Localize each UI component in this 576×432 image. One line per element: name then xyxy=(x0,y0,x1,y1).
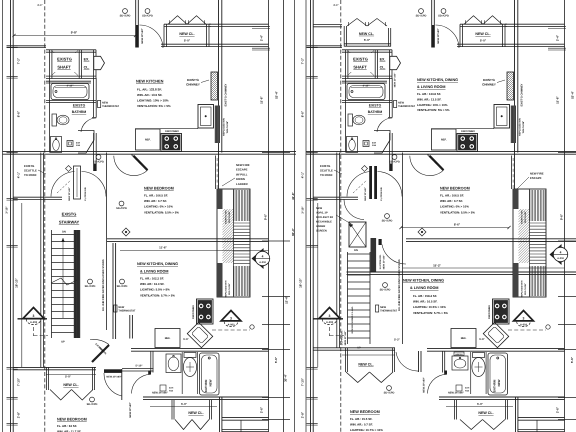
dashed swing xyxy=(57,180,71,193)
svg-text:FAN: FAN xyxy=(169,389,174,392)
bedroom door swing arc xyxy=(410,156,444,176)
svg-text:NEW CL.: NEW CL. xyxy=(478,411,493,415)
svg-text:11'-6": 11'-6" xyxy=(159,246,167,250)
svg-text:2'-6": 2'-6" xyxy=(556,406,560,413)
svg-text:VENTILATION: 5.7% > 5%: VENTILATION: 5.7% > 5% xyxy=(413,311,448,315)
double door arcs xyxy=(347,172,371,197)
svg-text:SD-/CPD: SD-/CPD xyxy=(384,392,395,395)
svg-text:EXH: EXH xyxy=(465,387,470,390)
svg-text:EXH: EXH xyxy=(169,387,174,390)
bathtub xyxy=(347,84,385,100)
svg-text:4: 4 xyxy=(262,254,264,258)
dim 15'-2 xyxy=(403,267,565,269)
bedroom west wall stub xyxy=(129,315,131,339)
svg-text:3'-1": 3'-1" xyxy=(37,4,43,7)
rear hall lines xyxy=(508,329,546,331)
bathtub xyxy=(51,84,89,100)
svg-text:7'-2": 7'-2" xyxy=(17,57,21,64)
svg-text:FL. AR.: 162.2 SF.: FL. AR.: 162.2 SF. xyxy=(140,277,164,281)
svg-text:SD-/CPD: SD-/CPD xyxy=(87,403,98,406)
svg-text:2'-8": 2'-8" xyxy=(301,411,305,418)
bedroom door swing arc xyxy=(114,156,148,176)
svg-text:EXH: EXH xyxy=(372,142,377,145)
bedroom door leaf diagonal xyxy=(134,156,148,170)
bathroom door arc xyxy=(377,118,392,132)
svg-text:DOWN: DOWN xyxy=(236,177,245,181)
svg-text:4'-10": 4'-10" xyxy=(363,85,371,88)
svg-text:SD-/CPD: SD-/CPD xyxy=(117,285,128,288)
svg-text:VENTILATION: 5% > 5%: VENTILATION: 5% > 5% xyxy=(417,108,450,112)
wall hall lower xyxy=(13,196,62,198)
dim 11'-6 xyxy=(120,250,269,252)
rear right walls xyxy=(219,397,221,432)
svg-text:NEW 30"x80": NEW 30"x80" xyxy=(394,73,397,88)
dim line 18-10 xyxy=(317,203,319,367)
svg-text:REPLACED W/N: REPLACED W/N xyxy=(225,280,228,297)
dim 8'-6 bedroom B xyxy=(401,227,509,229)
bedroom door jamb xyxy=(93,153,95,172)
svg-text:18'-10": 18'-10" xyxy=(15,278,19,288)
sink xyxy=(166,354,181,373)
svg-text:9'-6": 9'-6" xyxy=(560,213,564,220)
svg-text:DW/COMBO: DW/COMBO xyxy=(165,130,179,133)
kitchen door arc mid xyxy=(379,239,382,245)
fire escape structure xyxy=(217,189,250,297)
unit B dashed lot line xyxy=(340,0,342,432)
svg-text:REF.: REF. xyxy=(165,337,171,340)
unit A right dimension lines xyxy=(268,0,270,432)
right dimension ticks xyxy=(252,26,270,28)
svg-text:FAN: FAN xyxy=(372,144,377,147)
rear hall lines xyxy=(212,329,250,331)
svg-text:NEW KITCHEN: NEW KITCHEN xyxy=(136,79,164,84)
svg-text:STAIRWAY: STAIRWAY xyxy=(59,220,80,225)
smoke detector SD-/CPD xyxy=(90,397,95,402)
svg-text:NEW 30"x80": NEW 30"x80" xyxy=(129,402,132,417)
svg-text:SD-/CPD: SD-/CPD xyxy=(389,161,400,164)
svg-text:LIGHTING: 0% > 10%: LIGHTING: 0% > 10% xyxy=(144,205,173,209)
smoke detector SD-/CPD xyxy=(88,279,93,284)
svg-text:4: 4 xyxy=(560,250,562,254)
bathtub vertical NEW BATHRM xyxy=(488,353,508,395)
bedroom door jamb xyxy=(389,153,391,172)
svg-text:W/ PULL: W/ PULL xyxy=(236,172,248,176)
door leaf EX CL xyxy=(390,56,401,69)
svg-text:TO ROOF: TO ROOF xyxy=(320,173,333,177)
unit B property line left xyxy=(305,0,307,432)
diamond symbol xyxy=(418,228,426,236)
svg-text:A-002: A-002 xyxy=(227,324,235,327)
closet NEW CL front xyxy=(209,23,269,25)
svg-text:2'-8": 2'-8" xyxy=(17,411,21,418)
enclosed stair wall right xyxy=(402,153,404,345)
stair right wall dark band xyxy=(371,238,377,272)
svg-text:THERMOSTAT: THERMOSTAT xyxy=(398,105,415,108)
svg-text:& LIVING ROOM: & LIVING ROOM xyxy=(410,286,438,290)
svg-text:41'-8": 41'-8" xyxy=(291,191,295,199)
closet NEW CL rear-right xyxy=(150,405,217,407)
thermostat NEW THERMOSTAT xyxy=(376,305,379,312)
counter edge xyxy=(135,128,198,130)
rear bathroom sink xyxy=(454,352,464,356)
svg-text:FAN: FAN xyxy=(465,389,470,392)
exhaust fan box xyxy=(67,141,73,147)
svg-text:4'-1": 4'-1" xyxy=(301,171,305,178)
refrigerator xyxy=(155,329,180,348)
svg-text:SCUTTLE: SCUTTLE xyxy=(320,169,333,173)
section marker 3/A-002 xyxy=(23,308,44,319)
svg-text:9'-6": 9'-6" xyxy=(264,213,268,220)
svg-text:A-002: A-002 xyxy=(520,324,528,327)
refrigerator xyxy=(451,329,476,348)
closet NEW CL rear-left xyxy=(345,348,347,372)
svg-text:4'-1": 4'-1" xyxy=(17,171,21,178)
svg-text:SD-/CPD: SD-/CPD xyxy=(380,289,391,292)
wall fill new kitchen xyxy=(215,106,220,144)
svg-text:MECH'WBLE: MECH'WBLE xyxy=(316,221,332,224)
svg-text:LADDER: LADDER xyxy=(236,182,248,186)
chimney hatched xyxy=(507,72,514,100)
thermostat NEW THERMOSTAT xyxy=(98,101,101,108)
corridor wall xyxy=(112,243,114,339)
mid building wall xyxy=(3,151,297,153)
svg-text:FL. AR.: 63 SF.: FL. AR.: 63 SF. xyxy=(57,424,77,428)
svg-text:NEW 30"x80": NEW 30"x80" xyxy=(364,187,367,201)
rear kitchen sink diamond xyxy=(187,322,212,347)
svg-text:SHAFT: SHAFT xyxy=(57,65,71,70)
svg-text:UP: UP xyxy=(61,341,65,344)
section marker 3/A-002 xyxy=(221,311,241,321)
svg-text:FL. AR.: 133.8 SF.: FL. AR.: 133.8 SF. xyxy=(417,92,441,96)
rear kitchen sink diamond xyxy=(483,322,508,347)
svg-text:NEW 24"x80": NEW 24"x80" xyxy=(448,391,465,394)
svg-text:REF.: REF. xyxy=(441,139,447,142)
svg-text:8'-6": 8'-6" xyxy=(454,223,461,227)
section marker 3/A-002 xyxy=(319,308,340,319)
section marker 3/A-002 xyxy=(514,311,534,321)
rear bathroom toilet xyxy=(184,353,196,358)
bathtub vertical NEW BATHRM xyxy=(200,353,220,395)
skylight hatched box xyxy=(349,222,366,247)
svg-text:5'-0": 5'-0" xyxy=(477,402,484,406)
svg-text:FL. AR.: 133.8 SF.: FL. AR.: 133.8 SF. xyxy=(137,88,162,92)
wall hall lower xyxy=(313,196,358,198)
shaft EXISTG SHAFT xyxy=(46,49,96,51)
svg-text:A-302: A-302 xyxy=(30,321,38,324)
svg-text:LIGHTING: 5.5% > 8%: LIGHTING: 5.5% > 8% xyxy=(140,288,170,292)
svg-text:EXISTG: EXISTG xyxy=(369,104,382,108)
rear wall bedroom top xyxy=(313,347,395,349)
counter edge xyxy=(431,128,494,130)
svg-text:EXIST'G: EXIST'G xyxy=(483,78,495,82)
double door arcs xyxy=(51,172,75,197)
svg-text:NEW CL.: NEW CL. xyxy=(359,32,374,36)
section marker 3 left margin xyxy=(18,318,48,320)
svg-text:EXIST'G: EXIST'G xyxy=(187,78,199,82)
section marker 4/A-002 xyxy=(252,248,264,269)
rear bedroom door diagonal xyxy=(92,345,109,362)
svg-text:LIGHTING: 10.5% > 10%: LIGHTING: 10.5% > 10% xyxy=(413,305,446,309)
svg-text:1¾ PPGE DR.: 1¾ PPGE DR. xyxy=(380,187,383,201)
svg-text:W/N-7A/36": W/N-7A/36" xyxy=(522,121,525,133)
svg-text:A-002: A-002 xyxy=(557,257,564,260)
svg-text:FAN: FAN xyxy=(76,144,81,147)
kitchen counter right xyxy=(494,105,510,129)
svg-text:5'-6": 5'-6" xyxy=(183,338,189,341)
front entry wall segment xyxy=(431,0,433,48)
unit B exterior wall left xyxy=(310,0,312,432)
unit A exterior wall left xyxy=(10,0,12,432)
svg-text:CHIMNEY: CHIMNEY xyxy=(186,83,200,87)
front wall stub B xyxy=(406,238,576,240)
exhaust fan box xyxy=(363,141,369,147)
bathroom west wall xyxy=(49,78,51,153)
chimney wall vertical xyxy=(218,0,220,189)
svg-text:EXIST'G CHIMNEY: EXIST'G CHIMNEY xyxy=(225,83,228,106)
refrigerator xyxy=(432,129,457,150)
svg-text:BATHRM: BATHRM xyxy=(493,379,497,392)
svg-text:NEW 24"x80": NEW 24"x80" xyxy=(152,391,169,394)
thermostat NEW THERMOSTAT xyxy=(114,305,117,312)
svg-text:EXISTG: EXISTG xyxy=(62,212,77,217)
kitchen counter right xyxy=(198,105,214,129)
svg-text:LIGHTING: 10.7% > 10%: LIGHTING: 10.7% > 10% xyxy=(350,428,383,432)
svg-text:NEW BEDROOM: NEW BEDROOM xyxy=(57,418,87,422)
svg-text:EX. 2HR FIRE RATED ENCLOSED ST: EX. 2HR FIRE RATED ENCLOSED STAIRS xyxy=(102,259,105,311)
svg-text:WIN. AR.: 16.3 SF.: WIN. AR.: 16.3 SF. xyxy=(140,282,165,286)
stove/range xyxy=(161,134,182,152)
svg-text:NEW CL.: NEW CL. xyxy=(358,363,373,367)
svg-text:11'-6": 11'-6" xyxy=(556,96,560,104)
svg-text:LIGHTING: 10% > 10%: LIGHTING: 10% > 10% xyxy=(417,103,448,107)
svg-text:BATHRM: BATHRM xyxy=(72,110,87,114)
svg-text:DN: DN xyxy=(62,231,66,234)
svg-text:4'-10": 4'-10" xyxy=(67,85,75,88)
toilet xyxy=(348,114,353,126)
svg-text:EXISTG: EXISTG xyxy=(73,104,86,108)
bathroom door arc xyxy=(81,118,96,132)
rear bathroom walls xyxy=(442,351,444,373)
svg-text:WIN. AR.: 13.5 SF.: WIN. AR.: 13.5 SF. xyxy=(137,93,163,97)
svg-text:5'-0": 5'-0" xyxy=(65,375,72,379)
door arc front entry xyxy=(140,25,164,48)
svg-text:SD-/CPD: SD-/CPD xyxy=(438,15,449,18)
closet NEW CL rear-left xyxy=(46,367,48,390)
svg-text:VENTILATION: 5.5% > 5%: VENTILATION: 5.5% > 5% xyxy=(144,210,179,214)
svg-text:CL.: CL. xyxy=(84,66,90,70)
closet NEW CL front xyxy=(505,23,565,25)
wall stub left of shaft xyxy=(307,45,343,47)
svg-text:WIN. AR.: 0.7 SF.: WIN. AR.: 0.7 SF. xyxy=(144,199,167,203)
stairway west wall xyxy=(40,153,42,368)
stair treads xyxy=(52,235,75,333)
closet NEW CL top-left B xyxy=(343,26,345,47)
thermostat NEW THERMOSTAT xyxy=(394,101,397,108)
svg-text:NEW BEDROOM: NEW BEDROOM xyxy=(144,187,174,191)
vestibule angled wall xyxy=(78,131,94,154)
rear bathroom top wall xyxy=(427,348,565,350)
svg-text:LIGHTING: 0% > 10%: LIGHTING: 0% > 10% xyxy=(440,205,469,209)
smoke detector SD-/CPD xyxy=(96,155,101,160)
hall lower door arc B xyxy=(344,199,364,219)
toilet xyxy=(52,114,57,126)
svg-text:60'-4": 60'-4" xyxy=(291,227,295,235)
svg-text:NEW CL.: NEW CL. xyxy=(179,32,194,36)
door leaf EX CL xyxy=(94,56,105,69)
svg-text:12'-4": 12'-4" xyxy=(285,295,289,303)
stove/range xyxy=(457,134,478,152)
mid building wall xyxy=(306,151,576,153)
svg-text:8'-6": 8'-6" xyxy=(301,110,305,117)
svg-text:W/N-7A/36": W/N-7A/36" xyxy=(524,283,527,295)
svg-text:FL. AR.: 106.5 SF.: FL. AR.: 106.5 SF. xyxy=(144,194,168,198)
sink xyxy=(452,356,468,370)
svg-text:NEW KITCHEN, DINING: NEW KITCHEN, DINING xyxy=(403,279,444,283)
svg-text:WIN. AR.: 0.7 SF.: WIN. AR.: 0.7 SF. xyxy=(350,422,373,426)
svg-text:CHIMNEY: CHIMNEY xyxy=(482,83,496,87)
kitchen living wall xyxy=(347,271,576,273)
svg-text:SD-/CPD: SD-/CPD xyxy=(120,15,131,18)
svg-text:REPLACED W/N: REPLACED W/N xyxy=(519,118,522,136)
svg-text:NEW FIRE: NEW FIRE xyxy=(236,163,250,167)
svg-text:EXISTG: EXISTG xyxy=(24,164,34,168)
svg-text:THERMOSTAT: THERMOSTAT xyxy=(102,105,119,108)
refrigerator xyxy=(136,129,161,150)
stair direction arrow xyxy=(62,238,64,318)
svg-text:EXISTG: EXISTG xyxy=(353,57,368,62)
svg-text:7'-10": 7'-10" xyxy=(17,377,21,386)
stair left rail xyxy=(51,230,53,338)
svg-text:EXIST'G CHIMNEY: EXIST'G CHIMNEY xyxy=(521,83,524,106)
svg-text:LIGHTING: 10% > 10%: LIGHTING: 10% > 10% xyxy=(137,99,169,103)
svg-text:MIRROR: MIRROR xyxy=(455,353,463,356)
closet NEW CL rear-right xyxy=(446,405,513,407)
unit B right dimension lines xyxy=(564,0,566,432)
chimney wall vertical xyxy=(514,0,516,189)
svg-text:EXISTG: EXISTG xyxy=(320,164,330,168)
smoke detector SD-/CPD xyxy=(441,9,446,14)
svg-text:EX.: EX. xyxy=(380,58,386,62)
right dimension ticks xyxy=(548,26,566,28)
svg-text:NEW KITCHEN, DINING: NEW KITCHEN, DINING xyxy=(137,262,178,266)
diamond symbol xyxy=(122,228,130,236)
chimney hatched xyxy=(211,72,218,100)
stair break lines xyxy=(51,278,77,285)
svg-text:FL. AR.: 106.5 SF.: FL. AR.: 106.5 SF. xyxy=(440,194,464,198)
svg-text:1¾ PPGE DR.: 1¾ PPGE DR. xyxy=(84,187,87,201)
svg-text:REPLACED W/N: REPLACED W/N xyxy=(521,280,524,297)
svg-text:REF.: REF. xyxy=(145,139,151,142)
stove/range xyxy=(493,299,510,324)
svg-text:5'-0": 5'-0" xyxy=(181,402,188,406)
svg-text:15'-2": 15'-2" xyxy=(433,264,441,268)
svg-text:NEW BEDROOM: NEW BEDROOM xyxy=(440,187,470,191)
diamond small hall xyxy=(66,166,72,172)
section marker 3 left margin xyxy=(314,318,344,320)
svg-text:3'-10": 3'-10" xyxy=(6,206,9,214)
svg-text:BATHRM: BATHRM xyxy=(368,110,383,114)
svg-text:NEW CL.: NEW CL. xyxy=(188,411,203,415)
wall fill new kitchen xyxy=(511,106,516,144)
svg-text:NEW 30"x80": NEW 30"x80" xyxy=(68,187,71,201)
svg-text:A-002: A-002 xyxy=(259,261,266,264)
sink xyxy=(51,137,62,153)
svg-text:3: 3 xyxy=(33,314,35,318)
door arc rear hall xyxy=(418,351,420,372)
bedroom door leaf diagonal xyxy=(430,156,444,170)
wall stub left of shaft xyxy=(7,45,47,47)
svg-text:18'-10": 18'-10" xyxy=(299,278,303,288)
dashed swing xyxy=(353,180,367,193)
svg-text:30'-4": 30'-4" xyxy=(284,373,288,381)
svg-text:REF.: REF. xyxy=(461,337,467,340)
wall bathroom right xyxy=(93,78,95,118)
smoke detector SD-/CPD xyxy=(145,9,150,14)
svg-text:FL. AR.: 15.5 SF.: FL. AR.: 15.5 SF. xyxy=(350,417,373,421)
stair right wall dark band xyxy=(74,230,80,338)
svg-text:5'-6": 5'-6" xyxy=(274,356,278,363)
door arc rear hall xyxy=(104,369,122,373)
svg-text:VENTILATION: 5% > 5%: VENTILATION: 5% > 5% xyxy=(137,104,171,108)
svg-text:EXH: EXH xyxy=(76,142,81,145)
svg-text:3'-1": 3'-1" xyxy=(333,4,339,7)
svg-text:WIN. AR.: 13.5 SF.: WIN. AR.: 13.5 SF. xyxy=(417,97,442,101)
svg-text:SD-/CPD: SD-/CPD xyxy=(93,161,104,164)
svg-text:SD-/CPD: SD-/CPD xyxy=(382,220,393,223)
stove/range xyxy=(197,299,214,324)
kitchen living wall xyxy=(107,238,269,240)
sink xyxy=(347,137,358,153)
svg-text:FL. AR.: 158.4 SF.: FL. AR.: 158.4 SF. xyxy=(413,294,437,298)
svg-text:CL.: CL. xyxy=(380,66,386,70)
svg-text:7'-2": 7'-2" xyxy=(301,57,305,64)
svg-text:3: 3 xyxy=(230,316,232,320)
svg-text:DN: DN xyxy=(354,249,358,252)
svg-text:NEW KITCHEN, DINING: NEW KITCHEN, DINING xyxy=(417,78,458,82)
fire escape structure xyxy=(513,189,546,297)
svg-text:3: 3 xyxy=(523,316,525,320)
svg-text:WIN. AR.: 16.5 SF.: WIN. AR.: 16.5 SF. xyxy=(413,300,438,304)
shaft EXISTG SHAFT xyxy=(342,49,392,51)
stair left rail xyxy=(347,252,349,344)
smoke detector SD-/CPD xyxy=(385,214,390,219)
svg-text:DAYLIGHT IN/: DAYLIGHT IN/ xyxy=(316,216,333,219)
svg-text:5'-6": 5'-6" xyxy=(570,356,574,363)
svg-text:DW/COMBO: DW/COMBO xyxy=(192,305,195,319)
svg-text:2'-6": 2'-6" xyxy=(260,406,264,413)
stair treads xyxy=(348,254,371,338)
stairway west wall xyxy=(336,153,338,348)
svg-text:3'-10": 3'-10" xyxy=(302,206,305,214)
svg-text:5'-2": 5'-2" xyxy=(394,338,401,342)
svg-text:NEW: NEW xyxy=(208,379,212,386)
svg-text:3: 3 xyxy=(329,314,331,318)
svg-text:SCUTTLE: SCUTTLE xyxy=(24,169,37,173)
svg-text:NEW CL.: NEW CL. xyxy=(475,32,490,36)
svg-text:DW/COMBO: DW/COMBO xyxy=(488,305,491,319)
svg-text:NEW 30"x80": NEW 30"x80" xyxy=(344,331,347,346)
svg-text:53'-4": 53'-4" xyxy=(275,90,279,98)
stair hall double doors xyxy=(369,166,372,199)
svg-text:REPLACED W/N: REPLACED W/N xyxy=(223,118,226,136)
svg-text:SD-/CPD: SD-/CPD xyxy=(142,15,153,18)
svg-text:& LIVING ROOM: & LIVING ROOM xyxy=(417,85,445,89)
svg-text:NEW 30"x80": NEW 30"x80" xyxy=(423,377,426,392)
svg-text:THERMOSTAT: THERMOSTAT xyxy=(380,309,397,312)
rear bathroom top wall xyxy=(131,348,269,350)
svg-text:EX. 2HR FIRE RATED ENCLOSED ST: EX. 2HR FIRE RATED ENCLOSED STAIRS xyxy=(398,259,401,311)
dim line 18-10 xyxy=(21,203,23,367)
